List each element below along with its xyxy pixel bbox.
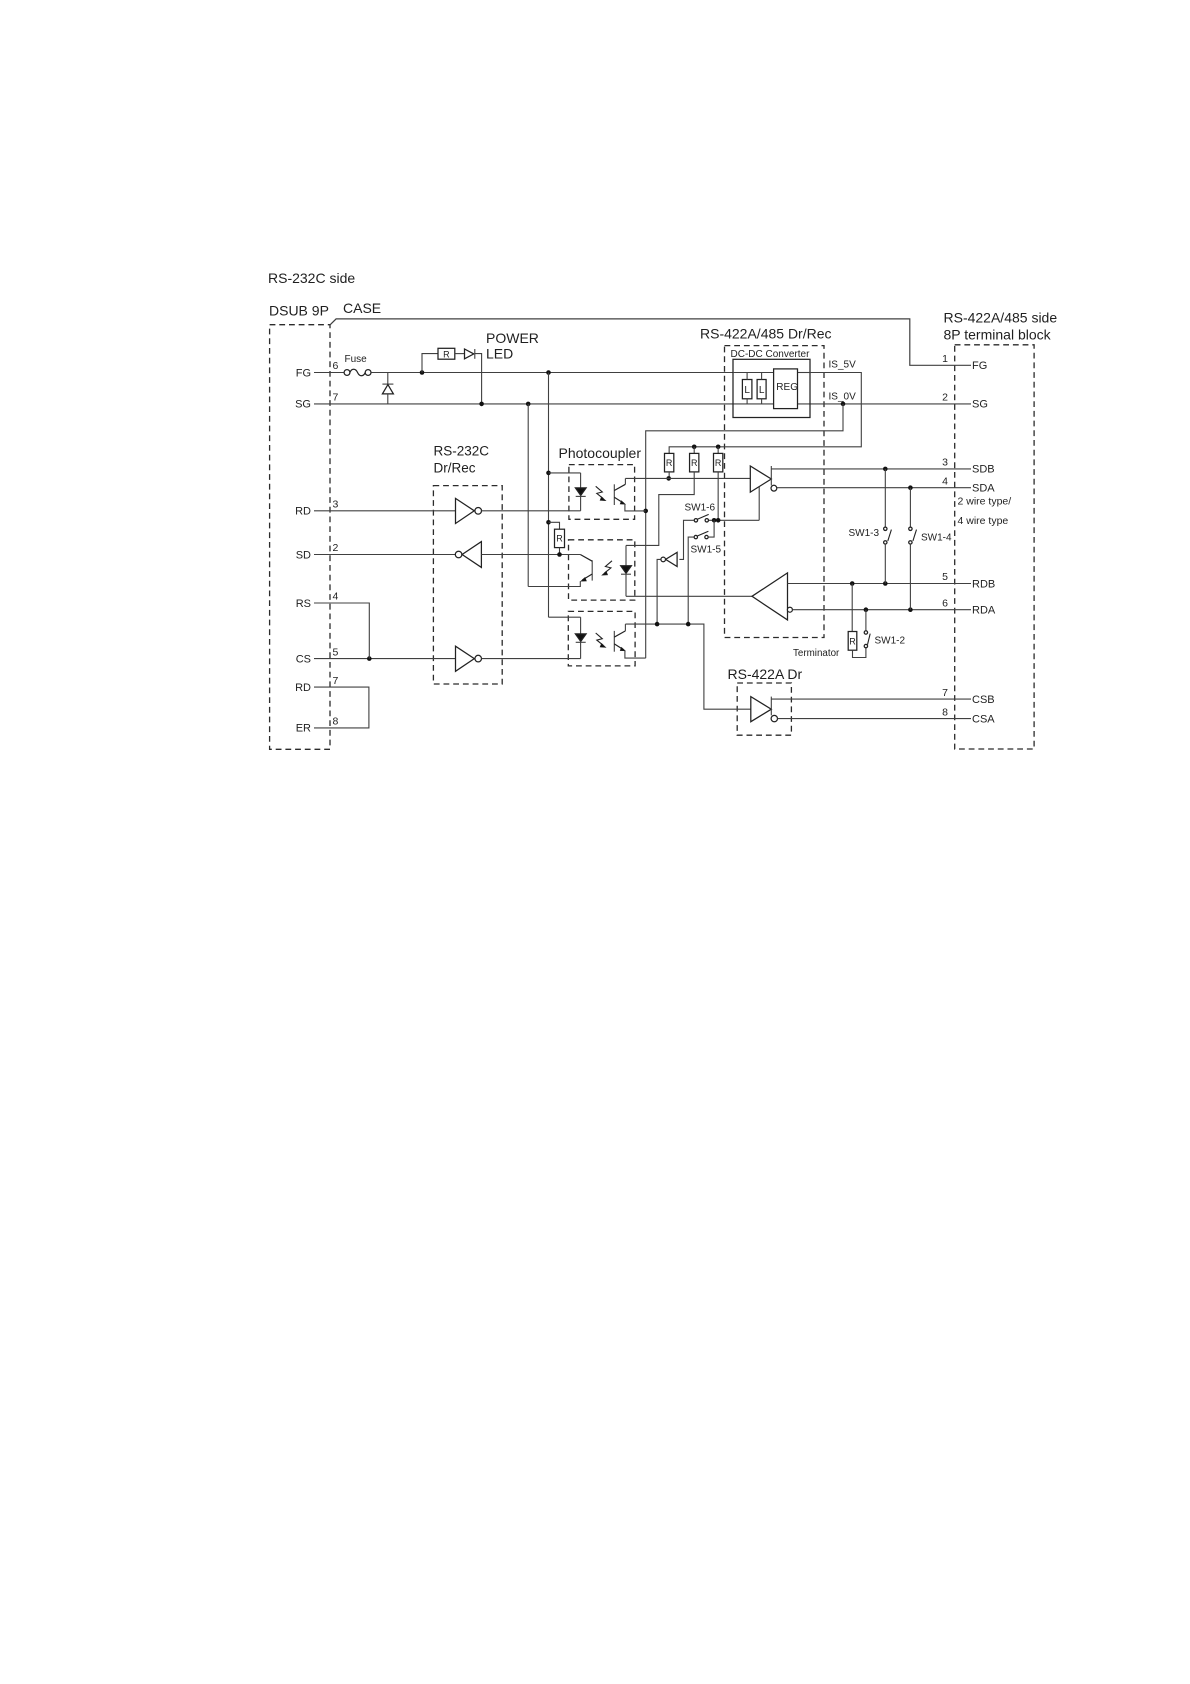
svg-text:Terminator: Terminator: [793, 648, 840, 659]
svg-text:5: 5: [942, 571, 948, 583]
svg-text:DSUB 9P: DSUB 9P: [269, 303, 329, 319]
svg-text:1: 1: [942, 353, 948, 365]
svg-text:R: R: [556, 534, 563, 544]
svg-text:RS-232C side: RS-232C side: [268, 270, 355, 286]
svg-text:POWER: POWER: [486, 330, 539, 346]
svg-text:5: 5: [333, 646, 339, 658]
svg-text:7: 7: [333, 392, 339, 404]
svg-text:SD: SD: [296, 549, 311, 561]
svg-text:2: 2: [333, 542, 339, 554]
svg-text:3: 3: [333, 499, 339, 511]
svg-text:Dr/Rec: Dr/Rec: [434, 461, 476, 476]
svg-text:6: 6: [942, 597, 948, 609]
svg-text:R: R: [849, 636, 856, 646]
svg-text:4: 4: [333, 591, 339, 603]
svg-text:LED: LED: [486, 346, 513, 362]
svg-text:8: 8: [333, 716, 339, 728]
svg-text:FG: FG: [296, 367, 311, 379]
svg-text:4 wire type: 4 wire type: [958, 515, 1009, 527]
svg-text:SW1-5: SW1-5: [691, 545, 722, 556]
svg-text:RS: RS: [296, 598, 311, 610]
svg-text:RS-232C: RS-232C: [434, 444, 490, 459]
svg-text:CS: CS: [296, 653, 311, 665]
svg-text:L: L: [759, 385, 765, 396]
svg-text:CSB: CSB: [972, 694, 995, 706]
svg-text:RS-422A/485 Dr/Rec: RS-422A/485 Dr/Rec: [700, 326, 832, 342]
svg-text:2: 2: [942, 392, 948, 404]
svg-text:R: R: [443, 349, 450, 359]
svg-text:RD: RD: [295, 682, 311, 694]
svg-text:8: 8: [942, 706, 948, 718]
svg-text:SDB: SDB: [972, 464, 995, 476]
svg-text:R: R: [666, 458, 673, 468]
svg-text:ER: ER: [296, 723, 311, 735]
svg-text:FG: FG: [972, 360, 987, 372]
svg-text:IS_0V: IS_0V: [829, 392, 857, 403]
svg-text:7: 7: [942, 687, 948, 699]
svg-text:L: L: [744, 385, 750, 396]
svg-text:CSA: CSA: [972, 713, 995, 725]
svg-text:SW1-2: SW1-2: [875, 636, 906, 647]
svg-text:7: 7: [333, 675, 339, 687]
svg-text:8P terminal block: 8P terminal block: [944, 327, 1052, 343]
svg-text:RS-422A/485 side: RS-422A/485 side: [944, 310, 1058, 326]
svg-text:RDB: RDB: [972, 578, 995, 590]
svg-text:R: R: [715, 458, 722, 468]
svg-text:REG: REG: [776, 382, 798, 393]
svg-text:SW1-4: SW1-4: [921, 533, 952, 544]
svg-text:SDA: SDA: [972, 483, 995, 495]
svg-text:RD: RD: [295, 506, 311, 518]
svg-text:2 wire type/: 2 wire type/: [958, 496, 1012, 508]
svg-text:IS_5V: IS_5V: [829, 360, 857, 371]
svg-text:R: R: [691, 458, 698, 468]
svg-text:SG: SG: [972, 399, 988, 411]
svg-text:Fuse: Fuse: [345, 354, 368, 365]
svg-text:Photocoupler: Photocoupler: [559, 445, 642, 461]
svg-text:CASE: CASE: [343, 300, 381, 316]
svg-text:DC-DC Converter: DC-DC Converter: [731, 349, 811, 360]
svg-text:RDA: RDA: [972, 605, 996, 617]
svg-text:SW1-3: SW1-3: [849, 528, 880, 539]
svg-text:SW1-6: SW1-6: [685, 503, 716, 514]
svg-text:RS-422A Dr: RS-422A Dr: [728, 666, 803, 682]
svg-text:3: 3: [942, 457, 948, 469]
svg-text:SG: SG: [295, 399, 311, 411]
svg-text:4: 4: [942, 475, 948, 487]
svg-text:6: 6: [333, 360, 339, 372]
